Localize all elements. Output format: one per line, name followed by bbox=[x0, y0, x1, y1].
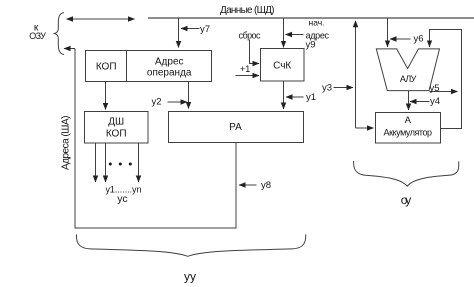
svg-text:ОЗУ: ОЗУ bbox=[29, 31, 46, 41]
svg-text:АЛУ: АЛУ bbox=[400, 74, 417, 84]
svg-text:Аккумулятор: Аккумулятор bbox=[384, 127, 433, 137]
svg-text:у3: у3 bbox=[322, 83, 332, 94]
svg-text:у5: у5 bbox=[430, 83, 440, 94]
svg-text:КОП: КОП bbox=[106, 129, 127, 140]
svg-text:сброс: сброс bbox=[239, 31, 262, 41]
svg-text:СчК: СчК bbox=[273, 61, 291, 72]
svg-text:КОП: КОП bbox=[96, 62, 117, 73]
svg-text:нач.: нач. bbox=[309, 17, 325, 27]
svg-text:ДШ: ДШ bbox=[108, 117, 124, 128]
svg-text:Адрес: Адрес bbox=[155, 57, 184, 68]
svg-text:у2: у2 bbox=[152, 97, 162, 108]
svg-text:+1: +1 bbox=[240, 64, 250, 74]
svg-text:уу: уу bbox=[184, 270, 196, 284]
svg-text:операнда: операнда bbox=[147, 67, 192, 78]
svg-text:у7: у7 bbox=[200, 24, 210, 35]
svg-text:А: А bbox=[405, 115, 412, 126]
svg-text:оу: оу bbox=[401, 193, 412, 207]
svg-text:Адреса (ША): Адреса (ША) bbox=[61, 116, 72, 171]
svg-text:у8: у8 bbox=[261, 180, 271, 191]
svg-text:у4: у4 bbox=[430, 96, 440, 107]
svg-text:у1: у1 bbox=[306, 92, 316, 103]
svg-text:РА: РА bbox=[229, 122, 242, 133]
svg-text:у9: у9 bbox=[306, 40, 316, 51]
svg-text:Данные (ШД): Данные (ШД) bbox=[220, 5, 275, 16]
svg-text:ус: ус bbox=[117, 193, 127, 205]
svg-text:у6: у6 bbox=[414, 34, 424, 45]
